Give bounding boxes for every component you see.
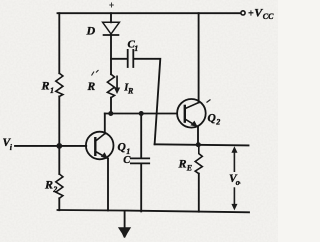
node B: junction dot C top <box>139 111 144 116</box>
wire: Q2 collector up to VCC rail <box>198 13 200 102</box>
svg-text:R: R <box>41 79 50 93</box>
wire: C1 right lead to bootstrap corner <box>134 59 160 145</box>
capacitor C plates <box>131 157 149 159</box>
ground symbol triangle <box>118 227 131 238</box>
svg-text:Q: Q <box>118 142 126 154</box>
svg-text:o: o <box>236 178 240 187</box>
wire: diode branch from rail <box>110 13 112 22</box>
capacitor C vertical leads <box>140 114 142 159</box>
svg-text:CC: CC <box>263 12 274 21</box>
wire: R bottom to node B <box>110 98 112 114</box>
capacitor C1 plates <box>127 50 129 67</box>
svg-text:D: D <box>86 24 96 38</box>
node: output junction dot at RE top <box>196 142 201 147</box>
wire: R1 bottom to bottom rail (through Vi node) <box>58 96 60 174</box>
resistor R2 <box>56 174 63 198</box>
svg-text:R: R <box>127 87 134 96</box>
wire: top VCC rail <box>58 12 241 14</box>
resistor R <box>107 74 114 97</box>
transistor Q1 <box>86 132 114 160</box>
wire: RE bottom to ground rail <box>198 174 200 212</box>
svg-text:R: R <box>44 178 53 192</box>
node B: junction dot R bottom <box>108 111 113 116</box>
Vo measure arrow up <box>234 150 236 172</box>
wire: bottom ground rail <box>58 210 250 212</box>
IR current arrow <box>116 76 118 89</box>
ground symbol stem <box>124 211 126 228</box>
wire: C1 left lead <box>111 58 127 60</box>
Vo measure arrow down <box>234 187 236 205</box>
wire: output emitter line <box>155 144 249 145</box>
Q2 emitter arrowhead <box>190 121 197 127</box>
node A: junction dot Vi/R1/R2 <box>56 143 62 149</box>
wire: left vertical (VCC to R1) <box>58 13 60 73</box>
wire: Q1 collector up to node B <box>104 114 106 134</box>
resistor R1 <box>56 73 63 96</box>
svg-text:Q: Q <box>208 112 216 124</box>
wire: node B horizontal (Q1 collector to Q2 base) <box>105 113 177 115</box>
wire: Q1 emitter down to ground rail <box>107 159 109 211</box>
transistor Q2 <box>177 99 206 128</box>
svg-text:1: 1 <box>134 44 138 53</box>
svg-text:R: R <box>87 81 96 93</box>
wire: Vi input to base node <box>15 145 86 147</box>
wire: diode cathode down to R top <box>110 35 112 74</box>
Q1 emitter arrowhead <box>101 152 108 158</box>
diode D <box>103 22 120 34</box>
stray accent above R <box>92 70 99 76</box>
svg-text:C: C <box>123 155 131 166</box>
svg-text:+: + <box>248 8 254 19</box>
svg-text:1: 1 <box>50 86 54 95</box>
node: +VCC terminal circle <box>241 11 245 15</box>
svg-text:2: 2 <box>215 118 220 127</box>
svg-text:2: 2 <box>52 185 57 194</box>
resistor RE <box>195 145 202 174</box>
stray accent near Q2 <box>207 100 211 103</box>
wire: R2 bottom to bottom rail <box>58 198 60 210</box>
svg-text:R: R <box>178 157 187 171</box>
stray mark above rail <box>109 3 114 8</box>
svg-text:E: E <box>186 164 192 173</box>
wire: Q2 emitter down to output node <box>197 127 199 145</box>
